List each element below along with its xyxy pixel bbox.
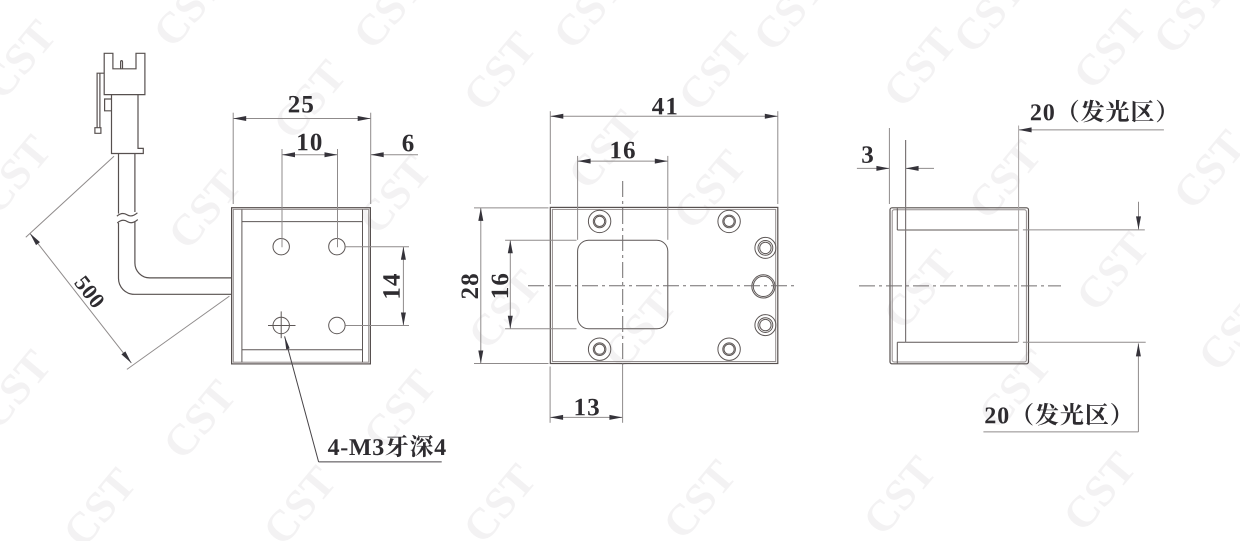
top view outer rectangle (double edge) [550, 207, 778, 363]
front view hole bottom-right [329, 317, 345, 333]
dimension 41 extension lines [549, 111, 551, 204]
dimension 14 line and arrows [402, 247, 404, 326]
dimension 500 extension lines [26, 156, 114, 237]
dimension 25 text [289, 96, 313, 113]
top view screw hole bottom-right [718, 338, 740, 360]
dimension 16 left text (rotated) [492, 274, 509, 297]
emitting area top arrow [1138, 202, 1140, 230]
dimension 25 line and arrows [233, 118, 371, 120]
top view horizontal centerline [528, 285, 797, 287]
dimension 10 text [298, 134, 321, 151]
dimension 16 top extension lines [577, 156, 579, 240]
dimension 16 top line and arrows [578, 160, 668, 162]
upper emitting area label leader [1019, 129, 1164, 131]
dimension 13 extension line [549, 367, 551, 423]
dimension 6 text [403, 135, 414, 152]
leader 4-M3 arrow and line [285, 336, 319, 462]
connector mid body with foot [112, 95, 144, 154]
connector latch flange [95, 73, 104, 133]
emitting area bottom arrow [1137, 343, 1139, 432]
dimension 41 text [652, 98, 676, 115]
dimension 6 line and arrow [371, 154, 418, 156]
upper emitting area label text [1031, 100, 1164, 123]
dimension 10 line and arrows [282, 154, 338, 156]
front view outer rectangle (double edge) [232, 208, 371, 364]
top view screw hole top-right [718, 210, 740, 232]
side view left wall inner edge [905, 140, 907, 342]
dimension 3 lines and arrows [857, 167, 890, 169]
connector center pin [121, 61, 123, 69]
connector left tab [105, 99, 112, 111]
dimension 25 extension lines [232, 113, 234, 204]
dimension 16 left extension lines [505, 239, 576, 241]
dimension 3 extension line [888, 128, 890, 204]
dimension 28 text (rotated) [461, 274, 478, 298]
dimension 14 extension lines [345, 246, 409, 248]
dimension 3 text [862, 146, 873, 163]
dimension 16 left line and arrows [509, 240, 511, 329]
dimension 28 extension lines [474, 207, 549, 209]
cable break squiggle [117, 213, 137, 216]
front view hole top-left [273, 239, 289, 255]
top view rounded square opening [578, 240, 668, 329]
dimension 500 text [74, 275, 106, 310]
side view bottom flange inner lines [896, 342, 898, 363]
dimension 10 extension lines through holes [281, 149, 283, 247]
dimension 13 line and arrows [550, 416, 622, 418]
side view top flange inner lines [896, 208, 898, 230]
front view hole top-right [329, 239, 345, 255]
front view hole bottom-left with crosshair [273, 317, 289, 333]
front view inner horizontal lines [242, 221, 363, 223]
side view horizontal centerline [859, 285, 1061, 287]
connector body (top fork) [104, 53, 145, 94]
cable lower segment and bend [119, 223, 232, 294]
dimension 16 top text [611, 142, 634, 159]
top view right small hole lower [755, 315, 776, 336]
watermark pattern CST [152, 0, 228, 48]
emitting area top extension line [1023, 229, 1145, 231]
dimension 28 line and arrows [480, 208, 482, 364]
cable upper segment [118, 154, 120, 214]
dimension 13 text [576, 399, 599, 416]
top view right center hole [752, 275, 775, 298]
top view right small hole upper [755, 237, 776, 258]
lower emitting area label leader [983, 431, 1138, 433]
side view outer rectangle (double edge) [890, 208, 1029, 364]
front view inner vertical lines [241, 209, 243, 362]
dimension 500 line and arrows [30, 233, 131, 363]
emitting area bottom extension line [1023, 341, 1146, 343]
dimension 41 line and arrows [550, 115, 778, 117]
top view screw hole bottom-left [588, 338, 610, 360]
lower emitting area label text [985, 403, 1118, 426]
top view screw hole top-left [588, 210, 610, 232]
label 4-M3 tapped holes text [328, 435, 446, 457]
dimension 14 text (rotated) [383, 274, 400, 298]
top view vertical centerline [622, 181, 624, 365]
